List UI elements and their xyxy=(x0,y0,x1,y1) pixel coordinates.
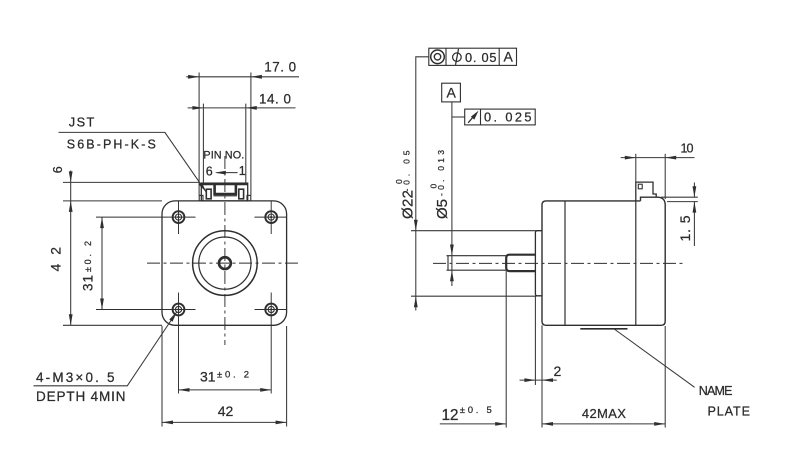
dim 42max right ext xyxy=(664,326,666,428)
dim 31 left vertical line xyxy=(101,217,103,309)
arrowheads front xyxy=(69,75,287,424)
svg-text:0. 05: 0. 05 xyxy=(465,50,497,65)
label d5 tolerance rotated xyxy=(428,150,451,219)
svg-text:14. 0: 14. 0 xyxy=(259,92,291,107)
label 31 left rotated xyxy=(81,241,96,291)
svg-text:JST: JST xyxy=(69,115,95,130)
dim 42max line xyxy=(542,423,665,425)
pilot boss side xyxy=(535,231,542,296)
dim 12 ext line xyxy=(505,271,507,427)
dim 2 line xyxy=(520,379,557,381)
svg-text:42MAX: 42MAX xyxy=(582,406,626,421)
runout feature control frame xyxy=(465,109,536,125)
svg-text:0: 0 xyxy=(394,179,404,184)
svg-text:2: 2 xyxy=(554,363,562,379)
svg-text:DEPTH 4MIN: DEPTH 4MIN xyxy=(36,389,126,404)
dim 14.0 line xyxy=(188,107,296,109)
body left edge extension xyxy=(541,325,543,427)
connector right foot xyxy=(247,195,251,200)
TEXT SIDE VIEW xyxy=(394,49,750,424)
shaft hub step xyxy=(506,255,535,271)
svg-text:A: A xyxy=(504,49,514,65)
connector left pin slot xyxy=(206,189,211,199)
connector left foot xyxy=(199,195,203,200)
mounting hole top-right xyxy=(265,211,277,223)
svg-text:1: 1 xyxy=(239,164,246,178)
dim 17.0 line xyxy=(186,76,299,78)
connector latch notch xyxy=(638,184,642,189)
svg-text:4-M3×0. 5: 4-M3×0. 5 xyxy=(36,370,115,385)
dim 1.5 vertical line xyxy=(693,183,695,198)
dim 10 ext lines xyxy=(635,154,637,182)
svg-text:6: 6 xyxy=(51,166,65,173)
SIDE VIEW xyxy=(433,182,686,329)
leader 4-M3 xyxy=(34,312,178,386)
datum A leader xyxy=(451,102,453,286)
svg-text:A: A xyxy=(447,84,457,100)
shaft side xyxy=(447,255,507,257)
boss chamfer circle xyxy=(199,237,251,289)
TEXT FRONT VIEW xyxy=(36,59,296,419)
svg-text:1. 5: 1. 5 xyxy=(677,215,693,241)
dim 12 line xyxy=(440,423,506,425)
svg-text:10: 10 xyxy=(681,142,694,156)
motor body side outline xyxy=(542,197,665,325)
connector thick top bar xyxy=(202,183,248,185)
mounting hole top-left xyxy=(173,211,185,223)
svg-text:S6B-PH-K-S: S6B-PH-K-S xyxy=(67,138,156,152)
svg-text:±0. 2: ±0. 2 xyxy=(217,370,249,381)
datum A box xyxy=(442,83,461,102)
svg-text:Ø5: Ø5 xyxy=(434,199,451,219)
connector channel lip xyxy=(214,195,238,197)
runout leader xyxy=(452,116,465,118)
svg-text:±0. 2: ±0. 2 xyxy=(83,241,93,272)
mounting hole bottom-right xyxy=(265,304,277,316)
rear end-bell line xyxy=(635,201,637,325)
label 1.5 rotated xyxy=(677,215,693,241)
connector side view xyxy=(636,182,656,201)
dim 14.0 extension lines xyxy=(202,104,204,183)
d22 extension lines xyxy=(411,230,537,232)
dim 31 bottom line xyxy=(179,389,272,391)
dim 42 bottom line xyxy=(162,421,287,423)
dim 2 ext line xyxy=(534,296,536,385)
label 42 left rotated xyxy=(48,247,64,272)
front end-bell line xyxy=(564,201,566,325)
GD&T xyxy=(429,48,535,125)
svg-text:0: 0 xyxy=(428,184,438,189)
connector front view body xyxy=(201,183,247,201)
d22 leader and dim line xyxy=(416,57,429,311)
arrowheads side xyxy=(414,156,696,426)
svg-text:NAME: NAME xyxy=(699,384,733,398)
dim 1.5 ext lines xyxy=(661,196,698,198)
runout symbol xyxy=(468,114,476,123)
dim 42 bottom extension lines xyxy=(161,326,163,427)
hole crosshairs xyxy=(96,201,287,394)
svg-text:31: 31 xyxy=(200,369,216,385)
DIMENSIONS SIDE VIEW xyxy=(411,57,698,428)
dim 17.0 extension lines xyxy=(198,73,200,196)
concentricity feature control frame xyxy=(429,48,517,65)
pin direction arrow xyxy=(217,172,238,174)
svg-text:PIN NO.: PIN NO. xyxy=(203,150,244,162)
svg-text:Ø22: Ø22 xyxy=(400,190,417,219)
svg-text:31: 31 xyxy=(81,275,96,291)
name plate line xyxy=(580,328,627,330)
connector right pin slot xyxy=(239,189,244,199)
mounting hole bottom-left xyxy=(173,304,185,316)
svg-text:PLATE: PLATE xyxy=(708,405,751,419)
vertical centerline front view xyxy=(224,156,226,345)
svg-text:17. 0: 17. 0 xyxy=(264,59,296,74)
shaft circle (d5) xyxy=(219,257,231,269)
left extension lines xyxy=(63,181,200,183)
label d22 tolerance rotated xyxy=(394,150,417,219)
dim 6 and 42 vertical line xyxy=(70,171,72,326)
horizontal centerline front view xyxy=(147,262,301,264)
leader JST xyxy=(59,132,207,192)
svg-text:12: 12 xyxy=(442,407,459,424)
svg-text:42: 42 xyxy=(218,403,234,419)
pilot boss circle (d22) xyxy=(193,231,258,296)
side centerline xyxy=(433,262,686,264)
name plate leader xyxy=(614,329,694,387)
svg-text:±0. 5: ±0. 5 xyxy=(460,405,492,416)
dim 10 line xyxy=(621,157,695,159)
connector U channel xyxy=(215,184,236,194)
DIMENSIONS FRONT VIEW xyxy=(63,73,299,427)
phi symbol in concentricity frame xyxy=(453,53,462,62)
motor body front face (42x42 square) xyxy=(162,201,287,325)
label 6 left rotated xyxy=(51,166,65,173)
svg-text:6: 6 xyxy=(206,164,213,178)
